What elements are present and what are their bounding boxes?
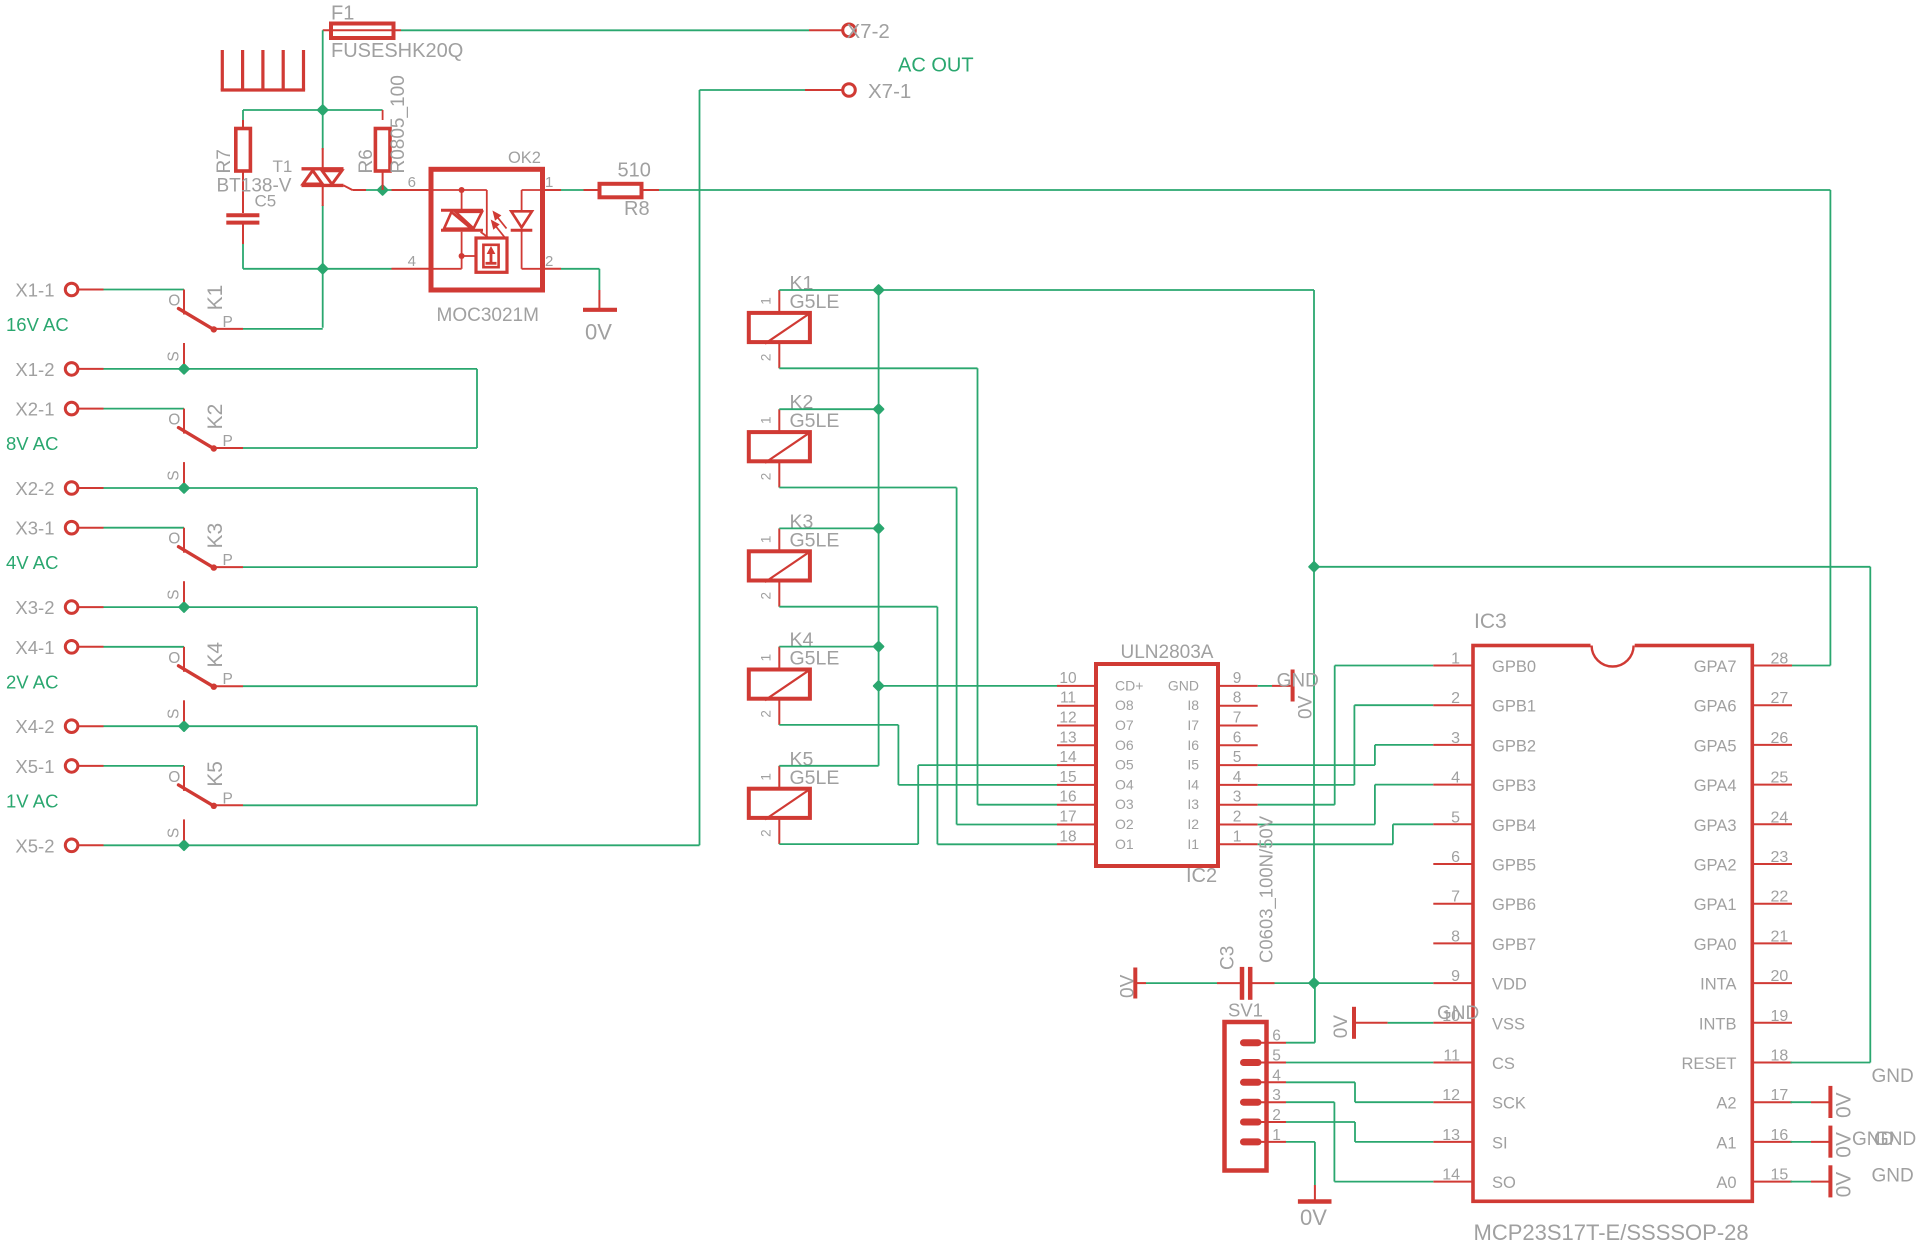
node junction fuse/R7/R6/triac [318, 105, 328, 115]
node junction R6/gate [378, 185, 388, 195]
svg-text:O: O [168, 412, 180, 429]
svg-text:GPA0: GPA0 [1694, 936, 1737, 954]
svg-text:OK2: OK2 [508, 149, 541, 167]
svg-text:R0805_100: R0805_100 [388, 75, 409, 173]
wire X1-2 net [104, 368, 478, 370]
svg-text:I2: I2 [1187, 816, 1199, 832]
svg-text:A0: A0 [1716, 1174, 1736, 1192]
svg-text:13: 13 [1059, 729, 1076, 746]
wire triac gate to OK2 [366, 189, 392, 191]
svg-text:4: 4 [1451, 770, 1460, 787]
IC2 pin 3 I3 [1187, 789, 1257, 813]
svg-text:R6: R6 [356, 149, 377, 173]
svg-text:1: 1 [1451, 651, 1460, 668]
svg-text:2: 2 [759, 592, 774, 600]
wire K1 coil pin2 to ULN [779, 368, 1057, 804]
IC2 pin 16 O3 [1057, 789, 1134, 813]
svg-text:GND: GND [1872, 1166, 1914, 1187]
IC3 pin 24 GPA3 [1694, 809, 1792, 835]
IC3 pin 19 INTB [1699, 1008, 1792, 1034]
svg-text:K2: K2 [204, 404, 227, 430]
connector pin X7-2 [809, 20, 890, 43]
svg-text:VSS: VSS [1492, 1015, 1525, 1033]
svg-text:4: 4 [408, 253, 416, 270]
resistor R7 [214, 120, 250, 213]
svg-text:O: O [168, 769, 180, 786]
node junction triac MT1 [318, 264, 328, 274]
ground 0V at A1 [1791, 1126, 1856, 1158]
svg-text:12: 12 [1059, 710, 1076, 727]
svg-text:24: 24 [1771, 809, 1789, 826]
svg-text:S: S [166, 709, 183, 719]
svg-text:15: 15 [1771, 1167, 1789, 1184]
wire relay common bus [779, 290, 1314, 766]
svg-text:GPB0: GPB0 [1492, 658, 1536, 676]
svg-text:O1: O1 [1115, 836, 1134, 852]
node junction bus [874, 681, 884, 691]
svg-text:4: 4 [1272, 1067, 1281, 1084]
svg-text:28: 28 [1771, 651, 1789, 668]
svg-text:17: 17 [1771, 1087, 1789, 1104]
SV1 pin 5 [1244, 1048, 1287, 1065]
svg-text:INTA: INTA [1700, 976, 1736, 994]
IC3 pin 15 A0 [1716, 1167, 1792, 1193]
svg-text:G5LE: G5LE [790, 291, 840, 313]
svg-text:GPA2: GPA2 [1694, 857, 1737, 875]
svg-text:GPA1: GPA1 [1694, 896, 1737, 914]
svg-text:0V: 0V [1833, 1092, 1856, 1118]
svg-text:P: P [223, 552, 233, 569]
svg-text:GPB1: GPB1 [1492, 698, 1536, 716]
svg-text:14: 14 [1059, 749, 1077, 766]
capacitor C5 [226, 192, 276, 269]
IC3 pin 25 GPA4 [1694, 770, 1792, 796]
svg-text:2: 2 [1451, 690, 1460, 707]
svg-text:5: 5 [1451, 809, 1460, 826]
IC3 pin 18 RESET [1681, 1048, 1792, 1074]
svg-text:3: 3 [1233, 789, 1242, 806]
wire K4 pole riser [243, 607, 477, 686]
svg-text:2: 2 [1233, 809, 1242, 826]
IC2 pin 10 CD+ [1057, 670, 1143, 694]
wire SV1 pin4 to SCK [1286, 1082, 1433, 1102]
svg-text:P: P [223, 671, 233, 688]
svg-text:5: 5 [1272, 1048, 1281, 1065]
IC3 pin 3 GPB2 [1433, 730, 1536, 756]
svg-text:16V AC: 16V AC [6, 314, 69, 335]
IC2 pin 18 O1 [1057, 828, 1134, 852]
wire K5 coil pin2 to ULN [779, 765, 1057, 844]
svg-text:S: S [166, 470, 183, 480]
IC IC2 ULN2803A box [1096, 642, 1218, 887]
IC3 pin 7 GPB6 [1433, 889, 1536, 915]
IC2 pin 5 I5 [1187, 749, 1257, 773]
IC2 pin 15 O4 [1057, 769, 1134, 793]
net label 8V AC [6, 433, 58, 454]
connector pin X1-2 [15, 359, 103, 380]
svg-text:G5LE: G5LE [790, 648, 840, 670]
IC2 pin 13 O6 [1057, 729, 1134, 753]
node junction VDD [1309, 978, 1319, 988]
wire fuse to X7-2 [401, 29, 809, 31]
IC3 pin 17 A2 [1716, 1087, 1792, 1113]
ground 0V at A0 [1791, 1165, 1856, 1197]
svg-text:20: 20 [1771, 968, 1789, 985]
svg-text:IC3: IC3 [1474, 610, 1507, 633]
node junction X1-2/S [179, 364, 189, 374]
IC2 pin 17 O2 [1057, 809, 1134, 833]
svg-text:1: 1 [759, 536, 774, 544]
IC3 pin 1 GPB0 [1433, 651, 1536, 677]
svg-text:16: 16 [1771, 1127, 1789, 1144]
svg-text:1: 1 [1233, 828, 1242, 845]
IC3 pin 9 VDD [1433, 968, 1527, 994]
wire K2 pole riser [243, 369, 477, 448]
svg-text:2: 2 [759, 354, 774, 362]
node junction RESET tap [1309, 562, 1319, 572]
connector pin X2-1 [15, 399, 103, 420]
wire K2 coil pin2 to ULN [779, 488, 1057, 825]
svg-text:GPB3: GPB3 [1492, 777, 1536, 795]
svg-text:I4: I4 [1187, 776, 1199, 792]
svg-text:17: 17 [1059, 809, 1076, 826]
wire K3 pole riser [243, 488, 477, 567]
svg-text:2: 2 [1272, 1107, 1281, 1124]
connector pin X5-1 [15, 756, 103, 777]
svg-text:X1-2: X1-2 [15, 359, 54, 380]
svg-text:4: 4 [1233, 769, 1242, 786]
svg-text:21: 21 [1771, 928, 1789, 945]
capacitor C3 [1217, 815, 1278, 1000]
wire X3-2 net [104, 606, 478, 608]
svg-text:GPA6: GPA6 [1694, 698, 1737, 716]
svg-text:6: 6 [1233, 729, 1242, 746]
svg-text:X3-1: X3-1 [15, 518, 54, 539]
connector pin X5-2 [15, 835, 103, 856]
wire K3 coil pin2 to ULN [779, 607, 1057, 845]
svg-text:10: 10 [1059, 670, 1077, 687]
optocoupler OK2 box [431, 149, 543, 326]
svg-text:X5-1: X5-1 [15, 756, 54, 777]
connector pin X4-1 [15, 637, 103, 658]
IC3 pin 28 GPA7 [1694, 651, 1792, 677]
svg-text:9: 9 [1233, 670, 1242, 687]
label GND A0 [1872, 1166, 1914, 1187]
svg-text:C0603_100N/50V: C0603_100N/50V [1256, 815, 1278, 963]
svg-text:510: 510 [618, 160, 651, 182]
IC3 pin 10 VSS [1433, 1008, 1525, 1034]
svg-text:25: 25 [1771, 770, 1789, 787]
node junction bus [874, 524, 884, 534]
IC3 pin 16 A1 [1716, 1127, 1792, 1153]
relay coil K2 [749, 392, 840, 488]
OK2 internal diac trigger box [476, 238, 507, 272]
wire SV1 pin2 to SI [1286, 1122, 1433, 1142]
IC3 pin 5 GPB4 [1433, 809, 1536, 835]
relay contact K5 [166, 761, 244, 840]
svg-text:X4-1: X4-1 [15, 637, 54, 658]
svg-text:18: 18 [1059, 828, 1076, 845]
IC3 pin 22 GPA1 [1694, 889, 1792, 915]
svg-text:F1: F1 [331, 3, 354, 25]
relay contact K2 [166, 404, 244, 483]
svg-text:8: 8 [1233, 690, 1242, 707]
svg-text:13: 13 [1442, 1127, 1460, 1144]
svg-text:O: O [168, 650, 180, 667]
SV1 pin 3 [1244, 1087, 1287, 1104]
svg-text:X4-2: X4-2 [15, 716, 54, 737]
wire SV1 pin5 to CS [1286, 1062, 1433, 1064]
net label 16V AC [6, 314, 69, 335]
wire R7 R6 top rail [243, 110, 383, 120]
svg-text:C3: C3 [1218, 946, 1239, 970]
svg-text:GPA5: GPA5 [1694, 737, 1737, 755]
svg-text:GND: GND [1277, 671, 1319, 692]
label AC OUT [898, 55, 974, 77]
svg-text:MOC3021M: MOC3021M [437, 305, 539, 326]
svg-text:O8: O8 [1115, 697, 1134, 713]
svg-text:P: P [223, 433, 233, 450]
svg-text:SI: SI [1492, 1134, 1508, 1152]
svg-text:K1: K1 [204, 285, 227, 311]
svg-text:O6: O6 [1115, 737, 1134, 753]
svg-text:2: 2 [759, 710, 774, 718]
wire SV1 pin1 to ground [1286, 1142, 1315, 1200]
fuse F1 [323, 3, 464, 63]
svg-text:3: 3 [1272, 1087, 1281, 1104]
svg-text:GND: GND [1874, 1129, 1916, 1150]
IC2 pin 11 O8 [1057, 690, 1134, 714]
svg-text:GPB7: GPB7 [1492, 936, 1536, 954]
wire IC2 GND pin to ground [1258, 685, 1291, 687]
wire R8 to GPA7 [659, 190, 1830, 666]
OK2 pin 1 [543, 174, 562, 191]
IC2 pin 14 O5 [1057, 749, 1134, 773]
wire I1 to GPB4 [1258, 824, 1434, 844]
svg-text:23: 23 [1771, 849, 1789, 866]
relay coil K3 [749, 511, 840, 607]
svg-text:K5: K5 [204, 761, 227, 787]
svg-text:4V AC: 4V AC [6, 552, 58, 573]
svg-text:0V: 0V [1296, 695, 1317, 719]
svg-text:CD+: CD+ [1115, 677, 1143, 693]
svg-text:6: 6 [408, 174, 416, 191]
svg-text:T1: T1 [273, 157, 293, 176]
IC3 pin 14 SO [1433, 1167, 1516, 1193]
wire VDD net [1275, 982, 1434, 984]
svg-text:I7: I7 [1187, 717, 1199, 733]
svg-text:K4: K4 [204, 642, 227, 668]
svg-text:1: 1 [759, 654, 774, 662]
IC2 pin 12 O7 [1057, 710, 1134, 734]
connector SV1 box [1225, 1000, 1267, 1171]
resistor R6 [356, 75, 409, 190]
ground 0V at IC2 pin9 [1277, 670, 1319, 720]
ground 0V left of C3 [1118, 968, 1218, 999]
svg-text:R7: R7 [214, 149, 235, 173]
wire X2-2 net [104, 487, 478, 489]
connector pin X7-1 [805, 80, 911, 103]
IC2 pin 6 I6 [1187, 729, 1257, 753]
svg-text:I3: I3 [1187, 796, 1199, 812]
svg-text:9: 9 [1451, 968, 1460, 985]
svg-text:R8: R8 [624, 198, 650, 220]
OK2 LED arrows [492, 212, 507, 238]
wire I4 to GPB1 [1258, 705, 1434, 785]
svg-text:7: 7 [1233, 710, 1242, 727]
svg-text:7: 7 [1451, 889, 1460, 906]
svg-text:X5-2: X5-2 [15, 835, 54, 856]
label GND A1 overlapped [1852, 1129, 1916, 1150]
IC3 pin 23 GPA2 [1694, 849, 1792, 875]
svg-text:K3: K3 [204, 523, 227, 549]
svg-text:I5: I5 [1187, 757, 1199, 773]
SV1 pin 1 [1244, 1127, 1287, 1144]
svg-text:O3: O3 [1115, 796, 1134, 812]
svg-text:I8: I8 [1187, 697, 1199, 713]
label GND RESET [1872, 1066, 1914, 1087]
svg-text:S: S [166, 828, 183, 838]
IC3 pin 6 GPB5 [1433, 849, 1536, 875]
wire K5 pole riser [243, 726, 477, 805]
svg-text:16: 16 [1059, 789, 1076, 806]
svg-text:27: 27 [1771, 690, 1789, 707]
label BT138-V [217, 176, 292, 197]
IC3 pin 21 GPA0 [1694, 928, 1792, 954]
triac T1 [273, 148, 367, 206]
wire SV1 pin3 to SO [1286, 1102, 1433, 1181]
svg-text:2: 2 [545, 253, 553, 270]
svg-text:I6: I6 [1187, 737, 1199, 753]
svg-text:ULN2803A: ULN2803A [1121, 642, 1214, 663]
svg-text:MCP23S17T-E/SSSSOP-28: MCP23S17T-E/SSSSOP-28 [1474, 1220, 1749, 1245]
IC3 pin 11 CS [1433, 1048, 1515, 1074]
wire C5/triac bottom rail [243, 268, 392, 270]
svg-text:2: 2 [759, 829, 774, 837]
relay coil K5 [749, 748, 840, 844]
SV1 pin 6 [1244, 1028, 1287, 1045]
relay contact K1 [166, 285, 244, 364]
svg-text:X2-1: X2-1 [15, 399, 54, 420]
svg-text:1: 1 [759, 773, 774, 781]
wire X5-1 to K5 [104, 765, 185, 767]
svg-text:19: 19 [1771, 1008, 1789, 1025]
OK2 internal phototriac [431, 187, 490, 269]
svg-text:1V AC: 1V AC [6, 790, 58, 811]
ground 0V below SV1 [1298, 1202, 1332, 1231]
ground 0V at A2 [1791, 1086, 1856, 1118]
net label 4V AC [6, 552, 58, 573]
svg-text:A1: A1 [1716, 1134, 1736, 1152]
svg-text:8V AC: 8V AC [6, 433, 58, 454]
svg-text:O4: O4 [1115, 776, 1134, 792]
IC3 pin 13 SI [1433, 1127, 1507, 1153]
svg-text:O2: O2 [1115, 816, 1134, 832]
wire fuse down to triac node [322, 30, 324, 328]
wire K4 coil pin2 to ULN [779, 725, 1057, 785]
wire X4-2 net [104, 725, 478, 727]
IC3 pin 26 GPA5 [1694, 730, 1792, 756]
relay contact K4 [166, 642, 244, 722]
wire K1 pole to triac node [243, 328, 323, 330]
svg-text:O7: O7 [1115, 717, 1134, 733]
relay contact K3 [166, 523, 244, 602]
wire X1-1 to K1 [104, 289, 185, 291]
svg-text:0V: 0V [1118, 974, 1139, 998]
wire SV1 pin6 to VDD net [1286, 983, 1315, 1043]
IC3 pin 8 GPB7 [1433, 928, 1536, 954]
IC2 pin 7 I7 [1187, 710, 1257, 734]
svg-text:22: 22 [1771, 889, 1789, 906]
IC3 pin 2 GPB1 [1433, 690, 1536, 716]
relay coil K1 [749, 273, 840, 369]
svg-text:INTB: INTB [1699, 1015, 1737, 1033]
heatsink [221, 50, 305, 90]
svg-text:X7-1: X7-1 [868, 80, 911, 103]
resistor R8 [584, 160, 660, 221]
wire I5 to GPB2 [1258, 745, 1434, 765]
wire X2-1 to K2 [104, 408, 185, 410]
svg-text:O: O [168, 293, 180, 310]
wire common bus to VDD riser [1313, 290, 1315, 983]
svg-text:5: 5 [1233, 749, 1242, 766]
svg-text:VDD: VDD [1492, 976, 1527, 994]
IC2 pin 9 GND [1168, 670, 1258, 694]
IC2 pin 4 I4 [1187, 769, 1257, 793]
wire RESET net [1314, 567, 1870, 1063]
svg-text:G5LE: G5LE [790, 529, 840, 551]
svg-text:6: 6 [1272, 1028, 1281, 1045]
OK2 internal LED [511, 190, 543, 269]
svg-text:SV1: SV1 [1228, 1000, 1263, 1021]
svg-text:18: 18 [1771, 1048, 1789, 1065]
IC IC3 MCP23S17 box [1473, 610, 1752, 1245]
IC2 pin 8 I8 [1187, 690, 1257, 714]
node junction X3-2/S [179, 602, 189, 612]
svg-text:X2-2: X2-2 [15, 478, 54, 499]
ground 0V at VSS [1331, 1003, 1479, 1039]
wire I2 to GPB3 [1258, 785, 1434, 825]
IC3 pin 20 INTA [1700, 968, 1792, 994]
node junction X5-2/S [179, 841, 189, 851]
svg-text:X1-1: X1-1 [15, 280, 54, 301]
svg-text:G5LE: G5LE [790, 767, 840, 789]
OK2 pin 2 [543, 253, 562, 270]
svg-text:A2: A2 [1716, 1095, 1736, 1113]
svg-text:O: O [168, 531, 180, 548]
connector pin X3-1 [15, 518, 103, 539]
svg-text:1: 1 [1272, 1127, 1281, 1144]
svg-text:15: 15 [1059, 769, 1076, 786]
svg-text:1: 1 [545, 174, 553, 191]
node junction bus [874, 642, 884, 652]
svg-text:X3-2: X3-2 [15, 597, 54, 618]
svg-text:GPB6: GPB6 [1492, 896, 1536, 914]
connector pin X4-2 [15, 716, 103, 737]
svg-text:GPB5: GPB5 [1492, 857, 1536, 875]
IC3 pin 4 GPB3 [1433, 770, 1536, 796]
svg-text:0V: 0V [1833, 1172, 1856, 1198]
wire X4-1 to K4 [104, 646, 185, 648]
node junction X2-2/S [179, 483, 189, 493]
svg-text:X7-2: X7-2 [847, 20, 890, 43]
svg-text:GPB2: GPB2 [1492, 737, 1536, 755]
OK2 pin 4 [392, 253, 432, 270]
svg-text:I1: I1 [1187, 836, 1199, 852]
svg-text:1: 1 [759, 297, 774, 305]
wire X7-1 to X5-2 net [700, 90, 806, 845]
node junction bus [874, 404, 884, 414]
